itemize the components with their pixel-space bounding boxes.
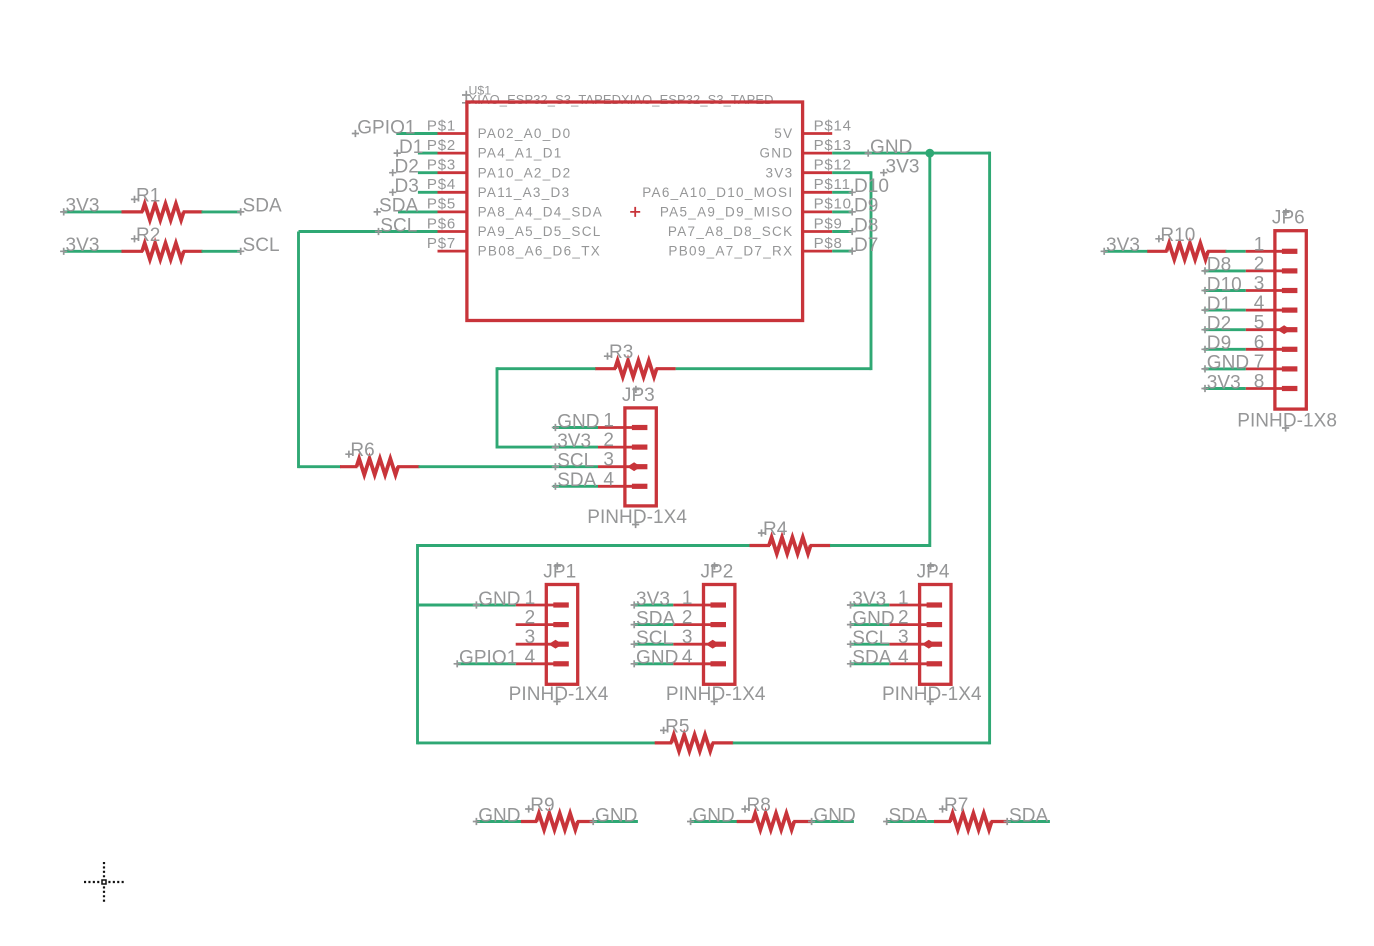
svg-text:4: 4 bbox=[898, 647, 909, 668]
wire 3V3 to R2 left bbox=[64, 250, 123, 253]
svg-text:1: 1 bbox=[898, 588, 909, 609]
svg-text:R8: R8 bbox=[747, 795, 771, 816]
wire JP6 pin2 label bbox=[1204, 269, 1246, 272]
svg-text:JP2: JP2 bbox=[701, 562, 734, 583]
JP2 pin 2 stub bbox=[673, 623, 712, 626]
wire JP4 pin2 label bbox=[851, 623, 890, 626]
value label R5 bbox=[660, 716, 689, 737]
wire net D2 to P$3 bbox=[418, 171, 438, 174]
svg-text:SDA: SDA bbox=[243, 196, 282, 217]
svg-text:4: 4 bbox=[1254, 293, 1265, 314]
net label GPIO1 bbox=[352, 117, 416, 138]
JP2 pin 1 pad bbox=[711, 602, 727, 607]
connector JP6 name label bbox=[1272, 208, 1305, 229]
connector JP4 name label bbox=[917, 562, 950, 583]
value label R4 bbox=[758, 519, 788, 540]
JP6 pin 2 pad bbox=[1282, 268, 1298, 273]
svg-text:1: 1 bbox=[603, 411, 614, 432]
svg-text:P$6: P$6 bbox=[427, 215, 456, 232]
value label R8 bbox=[741, 795, 770, 816]
JP3 pin 1 pad bbox=[632, 425, 648, 430]
svg-text:R7: R7 bbox=[944, 795, 968, 816]
wire 3V3 to R10 bbox=[1104, 250, 1148, 253]
svg-text:3: 3 bbox=[682, 627, 693, 648]
svg-text:4: 4 bbox=[603, 469, 614, 490]
svg-text:P$2: P$2 bbox=[427, 137, 456, 154]
JP6 pin 4 stub bbox=[1246, 309, 1284, 312]
svg-text:3: 3 bbox=[898, 627, 909, 648]
net label SCL (JP3 pin3) bbox=[552, 451, 595, 472]
resistor R3 bbox=[595, 361, 676, 377]
value label R9 bbox=[525, 795, 554, 816]
svg-text:GND: GND bbox=[478, 589, 520, 610]
wire net GPIO1 to P$1 bbox=[396, 132, 437, 135]
wire net D1 to P$2 bbox=[418, 152, 438, 155]
svg-text:D8: D8 bbox=[1207, 255, 1231, 276]
svg-text:D2: D2 bbox=[395, 157, 419, 178]
svg-text:D1: D1 bbox=[399, 137, 423, 158]
net label SCL (R2 right) bbox=[237, 235, 280, 256]
net label GND (JP2 pin4) bbox=[631, 648, 679, 669]
JP2 pin 4 pad bbox=[711, 661, 727, 666]
svg-text:JP3: JP3 bbox=[622, 385, 655, 406]
JP6 pin 5 pad (pointed) bbox=[1277, 325, 1297, 334]
wire R10 right to JP6 pin1 bbox=[1226, 250, 1246, 253]
wire R1 right to SDA bbox=[202, 210, 241, 213]
svg-text:PA4_A1_D1: PA4_A1_D1 bbox=[478, 146, 563, 161]
wire net D8 from pin bbox=[832, 230, 851, 233]
net label D10 (JP6 pin3) bbox=[1201, 274, 1241, 295]
JP4 pin 2 pad bbox=[927, 622, 943, 627]
svg-text:SDA: SDA bbox=[1009, 805, 1048, 826]
IC U$1 name label bbox=[462, 84, 491, 108]
JP4 pin 2 stub bbox=[889, 623, 928, 626]
svg-text:3V3: 3V3 bbox=[66, 235, 100, 256]
JP3 pin 2 pad bbox=[632, 445, 648, 450]
wire JP4 pin1 label bbox=[851, 604, 890, 607]
net label GND (JP4 pin2) bbox=[847, 608, 895, 629]
svg-text:GND: GND bbox=[636, 648, 678, 669]
resistor R7 bbox=[934, 813, 1008, 829]
resistor R5 bbox=[655, 735, 734, 751]
wire JP6 pin7 label bbox=[1204, 367, 1246, 370]
pin P$9 stub bbox=[803, 230, 833, 233]
value label R7 bbox=[939, 795, 968, 816]
JP6 pin 2 stub bbox=[1246, 269, 1284, 272]
net label D8 (JP6 pin2) bbox=[1201, 255, 1231, 276]
svg-text:GND: GND bbox=[478, 805, 520, 826]
pin P$13 stub bbox=[803, 152, 833, 155]
svg-text:SDA: SDA bbox=[557, 470, 596, 491]
svg-text:SDA: SDA bbox=[379, 196, 418, 217]
pin P$8 stub bbox=[803, 250, 833, 253]
wire GND to R9 left bbox=[476, 820, 522, 823]
svg-text:GND: GND bbox=[692, 805, 734, 826]
svg-text:P$9: P$9 bbox=[814, 215, 843, 232]
svg-text:PA02_A0_D0: PA02_A0_D0 bbox=[478, 126, 572, 141]
JP4 pin 3 pad (pointed) bbox=[922, 640, 942, 649]
JP4 pin 1 pad bbox=[927, 602, 943, 607]
wire left vertical JP1 bbox=[416, 544, 419, 744]
net label D1 (JP6 pin4) bbox=[1201, 294, 1231, 315]
svg-text:P$13: P$13 bbox=[814, 137, 852, 154]
svg-text:R5: R5 bbox=[665, 716, 689, 737]
svg-text:D9: D9 bbox=[1207, 333, 1231, 354]
svg-text:2: 2 bbox=[603, 430, 614, 451]
net label 3V3 (JP3 pin2) bbox=[552, 431, 591, 452]
svg-text:1: 1 bbox=[682, 588, 693, 609]
value label R2 bbox=[131, 225, 160, 246]
wire R5 right to GND vertical bbox=[733, 741, 990, 744]
wire JP3 pin4 label bbox=[553, 485, 598, 488]
JP2 pin 3 pad (pointed) bbox=[706, 640, 726, 649]
connector JP2 body box bbox=[704, 585, 735, 685]
svg-text:GND: GND bbox=[1207, 353, 1249, 374]
svg-text:D1: D1 bbox=[1207, 294, 1231, 315]
net label D2 bbox=[389, 157, 419, 178]
svg-text:PB08_A6_D6_TX: PB08_A6_D6_TX bbox=[478, 244, 601, 259]
svg-text:D8: D8 bbox=[854, 215, 878, 236]
wire GND to JP1 pin1 bbox=[418, 604, 516, 607]
net label D2 (JP6 pin5) bbox=[1201, 314, 1231, 335]
connector JP4 body box bbox=[920, 585, 951, 685]
wire 3V3 vertical to R3 row bbox=[870, 171, 873, 370]
svg-text:P$4: P$4 bbox=[427, 176, 456, 193]
JP6 pin 8 stub bbox=[1246, 387, 1284, 390]
wire net D9 from pin bbox=[832, 210, 851, 213]
svg-text:P$3: P$3 bbox=[427, 157, 456, 174]
net label SCL bbox=[375, 215, 418, 236]
svg-text:SDA: SDA bbox=[852, 648, 891, 669]
wire JP6 pin3 label bbox=[1204, 289, 1246, 292]
wire GPIO1 to JP1 pin4 bbox=[457, 662, 516, 665]
svg-text:R4: R4 bbox=[763, 519, 788, 540]
svg-text:SDA: SDA bbox=[636, 608, 675, 629]
svg-text:3V3: 3V3 bbox=[1207, 372, 1241, 393]
svg-text:4: 4 bbox=[682, 647, 693, 668]
value label R3 bbox=[604, 342, 633, 363]
connector JP1 body box bbox=[546, 585, 577, 685]
wire GND vertical to R4 row bbox=[928, 153, 931, 547]
resistor R9 bbox=[521, 813, 594, 829]
JP1 pin 4 pad bbox=[553, 661, 569, 666]
JP6 pin 6 pad bbox=[1282, 347, 1298, 352]
svg-text:R1: R1 bbox=[136, 185, 160, 206]
svg-text:7: 7 bbox=[1254, 352, 1265, 373]
connector JP1 name label bbox=[543, 562, 576, 583]
svg-text:P$8: P$8 bbox=[814, 235, 843, 252]
connector JP3 body box bbox=[625, 408, 656, 506]
JP3 pin 3 stub bbox=[598, 465, 634, 468]
net label GND (P$13) bbox=[865, 137, 913, 158]
wire JP6 pin8 label bbox=[1204, 387, 1246, 390]
svg-text:3V3: 3V3 bbox=[1106, 235, 1140, 256]
svg-text:SCL: SCL bbox=[852, 628, 889, 649]
svg-text:2: 2 bbox=[1254, 254, 1265, 275]
resistor R2 bbox=[122, 243, 203, 259]
origin crosshair mark bbox=[84, 862, 124, 902]
svg-text:3: 3 bbox=[1254, 274, 1265, 295]
svg-text:R10: R10 bbox=[1160, 225, 1195, 246]
net label SCL (JP4 pin3) bbox=[847, 628, 890, 649]
JP6 pin 4 pad bbox=[1282, 308, 1298, 313]
svg-text:GND: GND bbox=[870, 137, 912, 158]
wire R2 right to SCL bbox=[202, 250, 241, 253]
connector JP2 name label bbox=[701, 562, 734, 583]
svg-text:D2: D2 bbox=[1207, 314, 1231, 335]
net label SDA (R7 left) bbox=[883, 805, 928, 826]
pin P$4 stub bbox=[438, 191, 467, 194]
svg-text:1: 1 bbox=[1254, 234, 1265, 255]
net label GND (JP3 pin1) bbox=[552, 411, 600, 432]
wire R6 right to JP3 pin3 bbox=[419, 465, 599, 468]
svg-text:GPIO1: GPIO1 bbox=[459, 648, 517, 669]
JP2 pin 2 pad bbox=[711, 622, 727, 627]
svg-text:5: 5 bbox=[1254, 313, 1265, 334]
JP6 pin 3 pad bbox=[1282, 288, 1298, 293]
net label D1 bbox=[394, 137, 424, 158]
JP2 pin 3 stub bbox=[673, 643, 712, 646]
svg-text:R6: R6 bbox=[350, 440, 374, 461]
JP4 pin 1 stub bbox=[889, 604, 928, 607]
wire to JP3 pin2 bbox=[497, 446, 598, 449]
wire R4 right to GND vertical bbox=[830, 544, 930, 547]
wire net D10 from pin bbox=[832, 191, 851, 194]
svg-text:SCL: SCL bbox=[243, 235, 280, 256]
JP6 pin 3 stub bbox=[1246, 289, 1284, 292]
wire GND vertical right side bbox=[988, 152, 991, 745]
svg-text:4: 4 bbox=[525, 647, 536, 668]
JP6 pin 1 pad bbox=[1282, 249, 1298, 254]
svg-text:3V3: 3V3 bbox=[852, 589, 886, 610]
svg-text:2: 2 bbox=[682, 608, 693, 629]
JP1 pin 2 pad bbox=[553, 622, 569, 627]
svg-text:D7: D7 bbox=[854, 235, 878, 256]
svg-text:3: 3 bbox=[525, 627, 536, 648]
wire 3V3 to R1 left bbox=[64, 210, 123, 213]
svg-text:PA6_A10_D10_MOSI: PA6_A10_D10_MOSI bbox=[642, 185, 793, 200]
wire SCL corner to R6 bbox=[299, 465, 342, 468]
wire R9 right to GND bbox=[593, 820, 638, 823]
svg-text:JP6: JP6 bbox=[1272, 208, 1305, 229]
wire net SDA to P$5 bbox=[398, 210, 438, 213]
resistor R8 bbox=[737, 813, 812, 829]
connector JP6 body box bbox=[1275, 231, 1306, 409]
net label 3V3 (P$12) bbox=[880, 157, 919, 178]
wire R3 left horizontal bbox=[497, 367, 596, 370]
svg-text:GPIO1: GPIO1 bbox=[357, 117, 415, 138]
resistor R10 bbox=[1147, 243, 1226, 259]
svg-text:D10: D10 bbox=[1207, 274, 1242, 295]
net label SDA (JP3 pin4) bbox=[552, 470, 597, 491]
wire JP6 pin5 label bbox=[1204, 328, 1246, 331]
JP1 value label PINHD-1X4 bbox=[509, 684, 609, 705]
wire net SCL to P$6 (horizontal) bbox=[299, 230, 438, 233]
svg-text:PA8_A4_D4_SDA: PA8_A4_D4_SDA bbox=[478, 205, 603, 220]
JP3 pin 3 pad (pointed) bbox=[627, 462, 647, 471]
net label GND (R9 right) bbox=[590, 805, 638, 826]
wire net D7 from pin bbox=[832, 250, 851, 253]
IC origin cross bbox=[630, 207, 640, 217]
pin P$11 stub bbox=[803, 191, 833, 194]
JP1 pin 1 stub bbox=[516, 604, 556, 607]
pin P$10 stub bbox=[803, 210, 833, 213]
net label 3V3 (R2 left) bbox=[60, 235, 99, 256]
svg-text:JP1: JP1 bbox=[543, 562, 576, 583]
IC U$1 body box bbox=[467, 102, 803, 321]
wire R3 right to 3V3 vertical bbox=[676, 367, 871, 370]
svg-text:XIAO_ESP32_S3_TAPEDXIAO_ESP32_: XIAO_ESP32_S3_TAPEDXIAO_ESP32_S3_TAPED bbox=[469, 92, 774, 107]
JP2 value label PINHD-1X4 bbox=[666, 684, 766, 705]
net label D7 bbox=[849, 235, 879, 256]
pin P$3 stub bbox=[438, 171, 467, 174]
svg-text:PA11_A3_D3: PA11_A3_D3 bbox=[478, 185, 571, 200]
JP1 pin 3 pad (pointed) bbox=[549, 640, 569, 649]
svg-text:GND: GND bbox=[595, 805, 637, 826]
net label 3V3 (JP6 pin8) bbox=[1201, 372, 1240, 393]
svg-text:6: 6 bbox=[1254, 332, 1265, 353]
net label GND (JP6 pin7) bbox=[1201, 353, 1249, 374]
svg-text:GND: GND bbox=[852, 608, 894, 629]
JP4 pin 4 pad bbox=[927, 661, 943, 666]
wire SDA to R7 left bbox=[887, 820, 935, 823]
JP4 pin 3 stub bbox=[889, 643, 928, 646]
net label SDA (JP2 pin2) bbox=[631, 608, 676, 629]
wire R7 right to SDA bbox=[1007, 820, 1050, 823]
svg-text:SCL: SCL bbox=[380, 215, 417, 236]
svg-text:3V3: 3V3 bbox=[636, 589, 670, 610]
svg-text:5V: 5V bbox=[774, 126, 793, 141]
svg-text:SDA: SDA bbox=[889, 805, 928, 826]
wire JP3 pin1 label bbox=[553, 426, 598, 429]
net label 3V3 (R10 left) bbox=[1101, 235, 1140, 256]
JP3 pin 4 stub bbox=[598, 485, 634, 488]
pin P$7 stub bbox=[438, 250, 467, 253]
svg-text:8: 8 bbox=[1254, 372, 1265, 393]
svg-text:SCL: SCL bbox=[557, 451, 594, 472]
svg-text:PA7_A8_D8_SCK: PA7_A8_D8_SCK bbox=[668, 224, 793, 239]
JP3 value label PINHD-1X4 bbox=[587, 507, 687, 528]
wire R8 right to GND bbox=[811, 820, 854, 823]
svg-text:P$10: P$10 bbox=[814, 196, 852, 213]
svg-text:D9: D9 bbox=[854, 196, 878, 217]
svg-text:3V3: 3V3 bbox=[765, 165, 793, 180]
svg-text:SCL: SCL bbox=[636, 628, 673, 649]
wire R3 left vertical down bbox=[496, 367, 499, 448]
connector JP3 name label bbox=[622, 385, 655, 406]
JP4 value label PINHD-1X4 bbox=[882, 684, 982, 705]
net label 3V3 (R1 left) bbox=[60, 196, 99, 217]
svg-text:3V3: 3V3 bbox=[886, 157, 920, 178]
wire JP2 pin1 label bbox=[634, 604, 673, 607]
svg-text:D10: D10 bbox=[854, 176, 889, 197]
svg-text:3: 3 bbox=[603, 450, 614, 471]
JP6 pin 7 stub bbox=[1246, 367, 1284, 370]
net label GND (JP1 pin1) bbox=[473, 589, 521, 610]
svg-text:2: 2 bbox=[898, 608, 909, 629]
resistor R6 bbox=[340, 459, 420, 475]
net label GND (R9 left) bbox=[473, 805, 521, 826]
svg-text:R9: R9 bbox=[530, 795, 554, 816]
JP3 pin 1 stub bbox=[598, 426, 634, 429]
wire JP2 pin3 label bbox=[634, 643, 673, 646]
wire bottom left to R5 bbox=[418, 741, 656, 744]
value label R10 bbox=[1155, 225, 1195, 246]
svg-text:GND: GND bbox=[759, 146, 793, 161]
wire GND to R8 left bbox=[690, 820, 737, 823]
net label GND (R8 right) bbox=[808, 805, 856, 826]
pin P$14 stub bbox=[803, 132, 833, 135]
pin P$12 stub bbox=[803, 171, 833, 174]
svg-text:P$14: P$14 bbox=[814, 117, 852, 134]
JP6 value label PINHD-1X8 bbox=[1237, 411, 1337, 432]
svg-text:PB09_A7_D7_RX: PB09_A7_D7_RX bbox=[668, 244, 793, 259]
svg-text:P$12: P$12 bbox=[814, 157, 852, 174]
pin P$1 stub bbox=[438, 132, 467, 135]
wire JP2 pin2 label bbox=[634, 623, 673, 626]
net label 3V3 (JP4 pin1) bbox=[847, 589, 886, 610]
resistor R1 bbox=[122, 204, 203, 220]
JP6 pin 7 pad bbox=[1282, 366, 1298, 371]
resistor R4 bbox=[750, 537, 831, 553]
svg-text:GND: GND bbox=[557, 411, 599, 432]
svg-text:P$7: P$7 bbox=[427, 235, 456, 252]
net label SDA (R7 right) bbox=[1004, 805, 1049, 826]
wire SCL vertical bbox=[297, 232, 300, 469]
value label R6 bbox=[345, 440, 374, 461]
JP3 pin 4 pad bbox=[632, 484, 648, 489]
wire JP6 pin4 label bbox=[1204, 309, 1246, 312]
net label D9 bbox=[849, 196, 879, 217]
JP6 pin 8 pad bbox=[1282, 386, 1298, 391]
wire 3V3 from P$12 bbox=[832, 171, 871, 174]
svg-text:3V3: 3V3 bbox=[557, 431, 591, 452]
value label R1 bbox=[131, 185, 160, 206]
net label 3V3 (JP2 pin1) bbox=[631, 589, 670, 610]
junction GND node bbox=[925, 149, 934, 158]
net label SDA (R1 right) bbox=[237, 196, 282, 217]
JP2 pin 4 stub bbox=[673, 662, 712, 665]
svg-text:PA10_A2_D2: PA10_A2_D2 bbox=[478, 165, 572, 180]
JP1 pin 2 stub bbox=[516, 623, 556, 626]
JP3 pin 2 stub bbox=[598, 446, 634, 449]
svg-text:1: 1 bbox=[525, 588, 536, 609]
wire GND net P$13 horizontal bbox=[832, 152, 989, 155]
svg-text:3V3: 3V3 bbox=[66, 196, 100, 217]
net label D10 bbox=[849, 176, 889, 197]
net label D3 bbox=[389, 176, 419, 197]
JP2 pin 1 stub bbox=[673, 604, 712, 607]
JP6 pin 5 stub bbox=[1246, 328, 1284, 331]
svg-text:PA9_A5_D5_SCL: PA9_A5_D5_SCL bbox=[478, 224, 602, 239]
wire net D3 to P$4 bbox=[418, 191, 438, 194]
svg-text:P$1: P$1 bbox=[427, 117, 456, 134]
svg-text:P$5: P$5 bbox=[427, 196, 456, 213]
net label GPIO1 (JP1 pin4) bbox=[454, 648, 518, 669]
pin P$6 stub bbox=[438, 230, 467, 233]
JP1 pin 3 stub bbox=[516, 643, 556, 646]
JP1 pin 1 pad bbox=[553, 602, 569, 607]
net label D8 bbox=[849, 215, 879, 236]
wire JP4 pin4 label bbox=[851, 662, 890, 665]
svg-text:JP4: JP4 bbox=[917, 562, 950, 583]
net label D9 (JP6 pin6) bbox=[1201, 333, 1231, 354]
svg-text:R3: R3 bbox=[609, 342, 633, 363]
wire JP6 pin6 label bbox=[1204, 348, 1246, 351]
pin P$5 stub bbox=[438, 210, 467, 213]
wire JP4 pin3 label bbox=[851, 643, 890, 646]
net label SDA (JP4 pin4) bbox=[847, 648, 892, 669]
